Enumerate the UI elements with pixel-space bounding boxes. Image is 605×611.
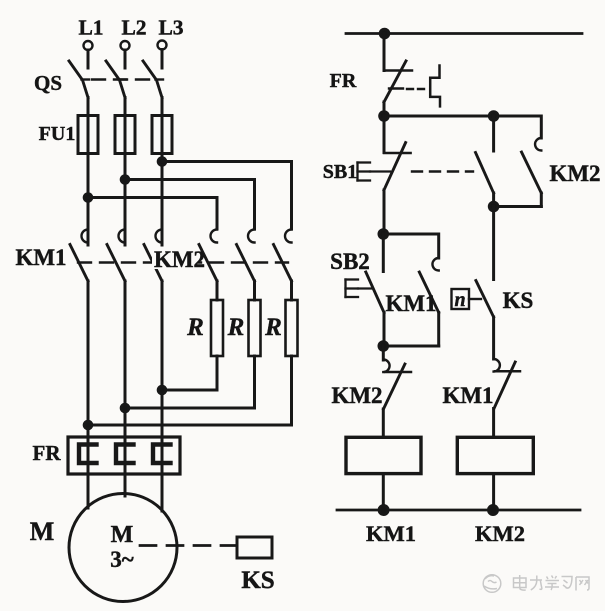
svg-text:R: R bbox=[227, 314, 245, 341]
wire L3 lead bbox=[161, 50, 164, 69]
resistor R1 bbox=[211, 300, 223, 356]
pushbutton SB1 (NC) bbox=[384, 116, 411, 190]
svg-text:R: R bbox=[264, 314, 282, 341]
wire phase2 fuse to contact bbox=[124, 154, 127, 246]
wire FR to motor phase3 bbox=[161, 474, 164, 511]
node SB2 branch bbox=[379, 230, 388, 239]
actuator n box of KS bbox=[452, 289, 482, 309]
svg-text:QS: QS bbox=[34, 71, 62, 95]
motor M circle bbox=[69, 494, 177, 602]
node branch junction 2 bbox=[489, 112, 498, 121]
thermal contact FR (NC) bbox=[384, 61, 427, 102]
node R1-phase3 junction bbox=[158, 386, 166, 394]
svg-text:FR: FR bbox=[330, 70, 357, 92]
thermal relay FR box bbox=[68, 437, 180, 474]
wire phase1 fuse to contact bbox=[87, 154, 90, 246]
wire coil KM1 to rail bbox=[382, 474, 385, 510]
actuator E of SB2 bbox=[346, 280, 372, 298]
svg-text:FR: FR bbox=[33, 441, 62, 465]
wire L1 lead bbox=[87, 50, 90, 68]
svg-text:n: n bbox=[454, 289, 465, 311]
wire branch to KM2 holdover bbox=[384, 116, 541, 138]
node junction phase1 bbox=[84, 194, 92, 202]
wire R1 bottom to phase3 bbox=[162, 356, 217, 390]
switch QS linkage dashed bbox=[92, 78, 155, 80]
watermark logo bbox=[483, 575, 501, 593]
wire phase1 below contact bbox=[87, 281, 90, 474]
svg-text:L3: L3 bbox=[158, 16, 183, 40]
wire holdover bottom 2 bbox=[383, 345, 438, 348]
svg-text:3~: 3~ bbox=[110, 547, 134, 572]
wire KS branch bbox=[492, 207, 495, 280]
label KM2 main bbox=[152, 247, 198, 269]
node junction phase2 bbox=[121, 176, 129, 184]
node branch junction bbox=[380, 112, 389, 121]
svg-text:L1: L1 bbox=[78, 16, 103, 40]
wire rail to FR contact bbox=[383, 34, 386, 71]
wire through fuse 2 bbox=[124, 116, 127, 154]
node holdover junction 2 bbox=[379, 342, 388, 351]
wire top rail bbox=[346, 32, 582, 35]
contactor KM1 main contact 1 bbox=[70, 229, 88, 281]
wire fanout phase2 to drop bbox=[125, 180, 255, 230]
node top rail junction bbox=[380, 29, 389, 38]
wire SB1 to SB2 node bbox=[383, 190, 386, 234]
svg-text:KM1: KM1 bbox=[442, 383, 493, 408]
contactor KM2 main contact 1 bbox=[199, 230, 217, 282]
resistor R2 bbox=[249, 300, 261, 356]
node bottom rail junction 2 bbox=[489, 506, 498, 515]
switch QS pole 2 bbox=[106, 61, 126, 98]
fuse FU1 pole1 bbox=[78, 116, 98, 154]
node bottom rail junction 1 bbox=[379, 506, 388, 515]
wire through fuse 3 bbox=[161, 116, 164, 154]
speed contact KS NO bbox=[476, 281, 494, 360]
contact KM1 auxiliary NO (self-hold) bbox=[419, 258, 438, 346]
contactor KM1 main contact 2 bbox=[107, 230, 125, 282]
thermal relay FR heater 1 bbox=[79, 445, 97, 464]
coil KM2 bbox=[457, 437, 533, 473]
wire fanout phase1 to drop bbox=[88, 198, 217, 230]
wire branch to KM1 holdover bbox=[383, 234, 438, 258]
svg-text:KM2: KM2 bbox=[549, 161, 600, 186]
wire phase3 below contact bbox=[161, 281, 164, 474]
svg-text:FU1: FU1 bbox=[39, 123, 76, 145]
node R3-phase1 junction bbox=[84, 421, 92, 429]
thermal relay FR heater 2 bbox=[116, 445, 134, 464]
contactor KM2 main contact 2 bbox=[237, 230, 255, 282]
wire KM2 drop2 to R2 bbox=[253, 281, 256, 300]
node L3 terminal bbox=[158, 41, 167, 50]
svg-text:KM1: KM1 bbox=[15, 245, 66, 270]
wire phase3 fuse to contact bbox=[161, 154, 164, 246]
svg-text:M: M bbox=[30, 517, 55, 546]
contact KM1 NC interlock bbox=[494, 359, 520, 437]
svg-text:KM1: KM1 bbox=[385, 291, 436, 316]
svg-text:KS: KS bbox=[241, 567, 274, 594]
wire R2 bottom to phase2 bbox=[125, 356, 255, 408]
wire KM2 drop1 to R1 bbox=[216, 281, 219, 300]
actuator E of SB1 bbox=[358, 163, 391, 181]
thermal relay FR heater 3 bbox=[153, 445, 171, 464]
wire fanout phase3 to drop bbox=[162, 162, 292, 230]
contactor KM1 main contact 3 bbox=[144, 230, 162, 282]
node L1 terminal bbox=[84, 41, 93, 50]
wire coil KM2 to rail bbox=[492, 474, 495, 510]
svg-text:KM2: KM2 bbox=[475, 521, 525, 546]
svg-text:KS: KS bbox=[503, 288, 534, 313]
fuse FU1 pole2 bbox=[115, 116, 135, 154]
svg-text:R: R bbox=[186, 314, 204, 341]
fuse FU1 pole3 bbox=[152, 116, 172, 154]
contact SB1 NO (parallel) bbox=[476, 116, 494, 207]
node holdover junction bbox=[489, 202, 498, 211]
wire KM2 drop3 to R3 bbox=[290, 281, 293, 300]
wire L2 lead bbox=[124, 50, 127, 68]
wire bottom rail bbox=[337, 509, 580, 512]
contactor linkage dashed KM1-KM2 bbox=[78, 261, 288, 263]
wire QS to FU1 pole3 bbox=[161, 98, 164, 116]
wire FR to node bbox=[383, 102, 386, 116]
linkage dashed SB1 to NO contact bbox=[412, 170, 473, 172]
wire R3 bottom to phase1 bbox=[88, 356, 292, 425]
wire FR to motor phase1 bbox=[87, 474, 90, 508]
svg-text:M: M bbox=[111, 522, 134, 548]
svg-text:KM2: KM2 bbox=[331, 383, 382, 408]
svg-text:KM1: KM1 bbox=[366, 521, 416, 546]
wire QS to FU1 pole2 bbox=[124, 98, 127, 116]
node R2-phase2 junction bbox=[121, 404, 129, 412]
wire phase2 below contact bbox=[124, 281, 127, 474]
switch QS pole 1 bbox=[69, 61, 89, 98]
svg-text:L2: L2 bbox=[121, 16, 146, 40]
svg-text:SB1: SB1 bbox=[323, 161, 357, 183]
wire FR to motor phase2 bbox=[124, 474, 127, 496]
svg-text:SB2: SB2 bbox=[330, 249, 370, 274]
speed switch KS box bbox=[237, 537, 272, 558]
shaft dashed link motor to KS bbox=[140, 544, 236, 547]
watermark text bbox=[514, 575, 590, 591]
node junction phase3 bbox=[158, 158, 166, 166]
svg-text:KM2: KM2 bbox=[154, 247, 205, 272]
contact KM2 auxiliary NO (self-hold) bbox=[522, 138, 542, 207]
thermal element FR bbox=[430, 66, 440, 107]
contactor KM2 main contact 3 bbox=[274, 230, 292, 282]
wire through fuse 1 bbox=[87, 116, 90, 154]
coil KM1 bbox=[346, 437, 421, 473]
pushbutton SB2 (NO start) bbox=[366, 234, 384, 346]
wire QS to FU1 pole1 bbox=[87, 98, 90, 116]
switch QS pole 3 bbox=[143, 61, 163, 98]
resistor R3 bbox=[286, 300, 298, 356]
wire holdover bottom bbox=[494, 205, 542, 208]
contact KM2 NC interlock bbox=[383, 346, 411, 437]
node L2 terminal bbox=[121, 41, 130, 50]
